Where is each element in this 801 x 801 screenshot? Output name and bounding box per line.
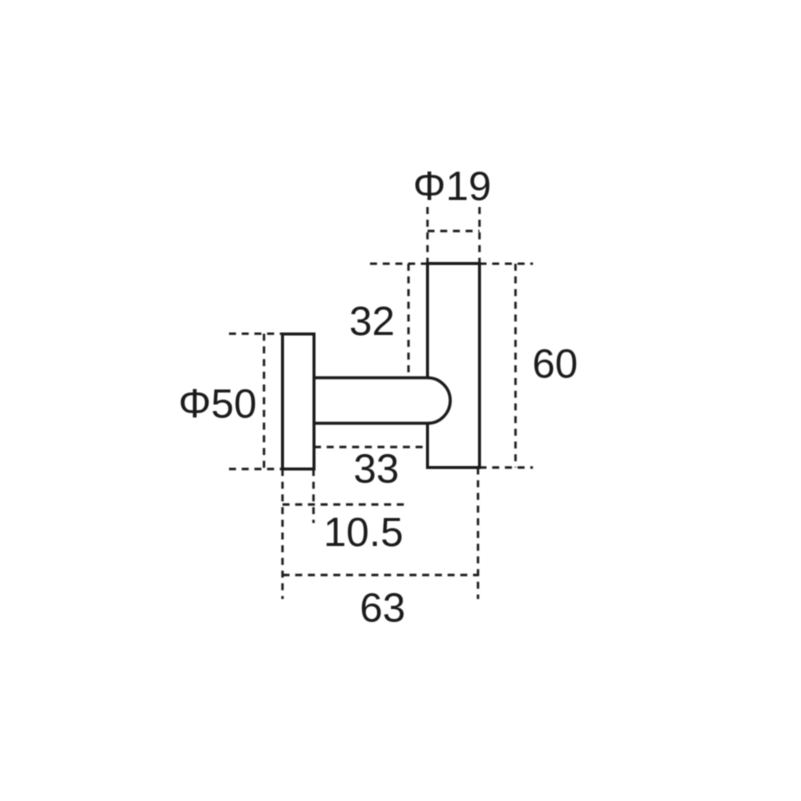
wire phi50 dimension line [263, 334, 265, 469]
svg-text:10.5: 10.5 [323, 509, 403, 555]
svg-text:33: 33 [353, 446, 399, 492]
svg-text:60: 60 [532, 341, 578, 387]
wire 63 dimension line [283, 574, 479, 576]
wire 60 dimension line [514, 264, 516, 468]
wire top reference left dashed [370, 263, 428, 265]
arm with rounded cap [314, 378, 450, 424]
wire 10.5 right extension [312, 469, 314, 523]
hook post bar [428, 264, 480, 468]
wire 32 dimension line [407, 264, 409, 377]
wire phi19 right extension line [478, 207, 480, 263]
wire phi19 dimension line [428, 230, 480, 232]
wire 60 bottom extension [480, 466, 534, 468]
svg-text:63: 63 [360, 585, 406, 631]
wire phi50 bottom extension [229, 468, 283, 470]
wire top reference right dashed [480, 263, 534, 265]
svg-text:Φ50: Φ50 [178, 380, 256, 426]
wire 10.5 dimension line [283, 503, 407, 505]
wire phi19 left extension line [426, 207, 428, 263]
wall plate side view [283, 334, 315, 469]
wire left shared extension [281, 469, 283, 599]
svg-text:32: 32 [349, 298, 395, 344]
wire phi50 top extension [229, 333, 283, 335]
svg-text:Φ19: Φ19 [413, 163, 491, 209]
wire 63 right extension [477, 468, 479, 600]
wire 33 dimension line [314, 446, 428, 448]
